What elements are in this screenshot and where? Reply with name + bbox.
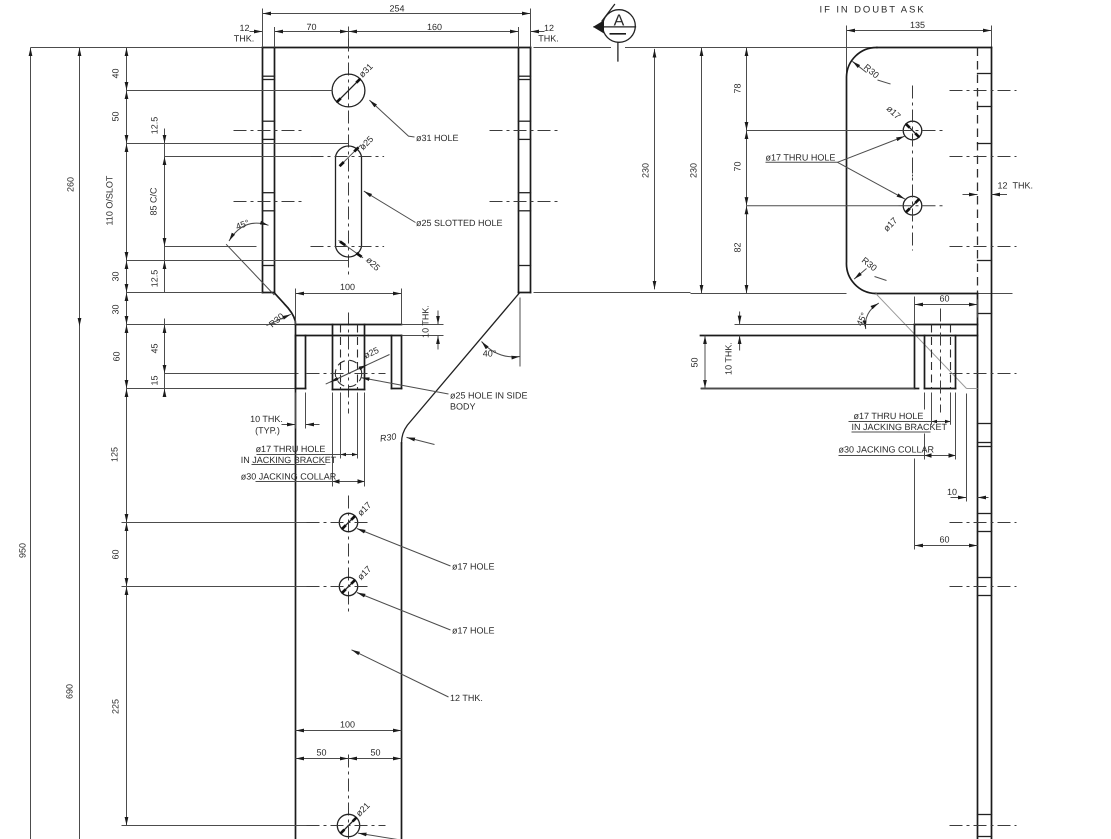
side plate face outline with R30 corners bbox=[846, 47, 876, 293]
top edge extension across views bbox=[534, 47, 612, 49]
svg-text:40°: 40° bbox=[483, 349, 497, 359]
slot outer top extension bbox=[127, 143, 349, 145]
bracket left edge and bottom bbox=[914, 325, 916, 389]
dim 50 right bbox=[704, 336, 706, 389]
45 deg construction line bbox=[226, 244, 274, 295]
svg-text:82: 82 bbox=[733, 242, 743, 252]
leader o17 HOLE upper bbox=[357, 529, 451, 567]
svg-text:70: 70 bbox=[733, 161, 743, 171]
svg-text:60: 60 bbox=[939, 535, 949, 545]
collar extension lines below bbox=[332, 393, 334, 487]
svg-text:THK.: THK. bbox=[234, 34, 255, 44]
svg-text:10 THK.: 10 THK. bbox=[421, 305, 431, 338]
slot outer bottom extension bbox=[127, 260, 349, 262]
bracket right leg bbox=[391, 336, 393, 389]
dim o17 thru hole (right) bbox=[849, 421, 951, 423]
svg-text:60: 60 bbox=[112, 351, 122, 361]
R30 label top bbox=[852, 61, 866, 72]
leader o25 HOLE IN SIDE BODY bbox=[361, 378, 449, 394]
svg-text:60: 60 bbox=[939, 294, 949, 304]
dim 10 foot bbox=[951, 497, 967, 499]
dim 60 lower right bbox=[915, 545, 978, 547]
main plate top edge (front view) bbox=[263, 47, 531, 49]
svg-text:ø25 HOLE IN SIDE: ø25 HOLE IN SIDE bbox=[450, 390, 528, 400]
dim 10 THK TYP legs bbox=[282, 424, 296, 426]
dim 70 and 160 line bbox=[275, 31, 349, 33]
svg-text:IF IN DOUBT ASK: IF IN DOUBT ASK bbox=[820, 5, 926, 16]
dim 100 lower bbox=[296, 730, 402, 732]
svg-text:ø25 SLOTTED HOLE: ø25 SLOTTED HOLE bbox=[416, 218, 503, 228]
dim line 260 / 690 bbox=[79, 48, 81, 327]
dim o30 jacking collar (front) bbox=[256, 481, 365, 483]
main centre line (vertical) bbox=[348, 27, 350, 48]
svg-text:135: 135 bbox=[910, 20, 925, 30]
svg-text:12: 12 bbox=[239, 23, 249, 33]
centre line of side-plate hole row 2 through both bars bbox=[234, 201, 303, 203]
svg-text:ø17 THRU HOLE: ø17 THRU HOLE bbox=[766, 153, 836, 163]
hole 25 in side body (hidden) bbox=[335, 360, 361, 386]
hole 17 #2 bbox=[339, 577, 357, 595]
svg-text:100: 100 bbox=[340, 282, 355, 292]
o25 dim at slot top bbox=[340, 145, 361, 166]
svg-text:12.5: 12.5 bbox=[150, 117, 160, 135]
chain column 12.5/85/12.5 and 45/15 bbox=[164, 129, 166, 293]
hidden ticks on left bar: R30 corner + side-plate hole edges bbox=[263, 75, 275, 77]
svg-text:225: 225 bbox=[111, 699, 121, 714]
svg-text:30: 30 bbox=[111, 271, 121, 281]
extension lines to chain columns bbox=[127, 90, 234, 92]
R30 label bottom bbox=[854, 269, 866, 280]
dim 100 over bracket bbox=[296, 293, 402, 295]
svg-text:IN JACKING BRACKET: IN JACKING BRACKET bbox=[241, 455, 337, 465]
svg-text:40: 40 bbox=[111, 68, 121, 78]
bracket flange bbox=[296, 324, 402, 326]
long plate left edge bbox=[295, 325, 297, 839]
45 deg arc bbox=[229, 223, 269, 241]
svg-text:254: 254 bbox=[389, 4, 404, 14]
svg-text:260: 260 bbox=[66, 177, 76, 192]
dim 254 bbox=[263, 13, 531, 15]
svg-text:110 O/SLOT: 110 O/SLOT bbox=[105, 175, 115, 225]
svg-text:12: 12 bbox=[998, 181, 1008, 191]
collar bore hidden lines bbox=[340, 325, 342, 390]
45 deg chamfer line (thin) bbox=[876, 294, 967, 389]
extension line from top edge to left dimension column bbox=[31, 47, 263, 49]
svg-text:THK.: THK. bbox=[1013, 181, 1034, 191]
section arrow A bbox=[603, 10, 636, 43]
leader o25 SLOTTED HOLE bbox=[364, 191, 416, 222]
svg-text:50: 50 bbox=[111, 111, 121, 121]
o25 dim slash bbox=[326, 355, 390, 385]
bracket left leg bbox=[295, 336, 297, 389]
dim 12 THK right bbox=[531, 31, 545, 33]
svg-text:A: A bbox=[614, 13, 625, 30]
side plate left, edge view (12 thk bar) bbox=[262, 48, 264, 293]
svg-text:30: 30 bbox=[111, 304, 121, 314]
svg-text:IN JACKING BRACKET: IN JACKING BRACKET bbox=[852, 422, 948, 432]
svg-text:125: 125 bbox=[110, 447, 120, 462]
40 deg chamfer right + R30 fillet to long plate bbox=[401, 293, 519, 443]
slot bottom centre line bbox=[165, 246, 257, 248]
hole 21 bbox=[337, 814, 359, 836]
svg-text:12 THK.: 12 THK. bbox=[450, 693, 483, 703]
dim 10 THK flange bbox=[437, 311, 439, 325]
jacking collar outer bbox=[332, 325, 334, 390]
svg-text:100: 100 bbox=[340, 719, 355, 729]
svg-text:ø31 HOLE: ø31 HOLE bbox=[416, 133, 459, 143]
flange edge view bbox=[735, 324, 915, 326]
svg-text:230: 230 bbox=[641, 163, 651, 178]
chain 78/70/82 bbox=[746, 48, 748, 131]
svg-text:60: 60 bbox=[111, 549, 121, 559]
svg-text:950: 950 bbox=[18, 543, 28, 558]
svg-text:50: 50 bbox=[690, 357, 700, 367]
45 deg angle dim right bbox=[865, 303, 878, 329]
svg-text:THK.: THK. bbox=[538, 34, 559, 44]
long plate right edge bbox=[401, 443, 403, 839]
dim 135 bbox=[847, 30, 992, 32]
leader 12 THK plate bbox=[352, 650, 449, 697]
o25 dim at slot bottom bbox=[339, 240, 363, 257]
ticks on plate edge: slot bbox=[978, 143, 992, 145]
dim 12 THK left bbox=[250, 31, 263, 33]
dim o17 thru hole (front) bbox=[257, 454, 358, 456]
hole 17 #1 bbox=[339, 513, 357, 531]
ticks on plate edge: lower holes bbox=[978, 513, 992, 515]
dim 50 50 bbox=[296, 758, 349, 760]
svg-text:10 THK.: 10 THK. bbox=[724, 342, 734, 375]
hole 25 centre line bbox=[307, 373, 386, 375]
45 deg chamfer left + R30 fillet to long plate bbox=[275, 294, 295, 325]
svg-text:10 THK.: 10 THK. bbox=[250, 414, 283, 424]
svg-text:ø30 JACKING COLLAR: ø30 JACKING COLLAR bbox=[839, 445, 935, 455]
40 deg angle dim bbox=[519, 298, 521, 367]
svg-text:50: 50 bbox=[370, 747, 380, 757]
collar edge view bbox=[924, 336, 926, 389]
dim 230 (right view) bbox=[701, 48, 703, 294]
dim line 950 bbox=[30, 48, 32, 839]
centre dash-dots across plate edge bbox=[950, 90, 1017, 92]
main plate edge view bbox=[977, 48, 979, 294]
extension to right view bottom bbox=[691, 293, 847, 295]
svg-text:690: 690 bbox=[65, 684, 75, 699]
hole 17 bottom (side plate) bbox=[903, 196, 922, 215]
ticks on plate edge: hole 31 bbox=[978, 73, 992, 75]
dim 60 bracket top bbox=[915, 304, 978, 306]
svg-text:ø17 THRU HOLE: ø17 THRU HOLE bbox=[256, 444, 326, 454]
dim 230 (left view height) bbox=[654, 49, 656, 290]
leader o17 HOLE lower bbox=[357, 593, 451, 631]
svg-text:ø17 HOLE: ø17 HOLE bbox=[452, 562, 495, 572]
hole 31 dia bbox=[332, 74, 365, 107]
hole 17 top (side plate) bbox=[903, 121, 922, 140]
dim o30 jacking collar (right) bbox=[839, 455, 956, 457]
svg-text:BODY: BODY bbox=[450, 401, 476, 411]
side plate right, edge view (12 thk bar) bbox=[518, 48, 520, 293]
svg-text:15: 15 bbox=[150, 375, 160, 385]
svg-text:10: 10 bbox=[947, 487, 957, 497]
svg-text:230: 230 bbox=[689, 163, 699, 178]
collar extension lines below (right) bbox=[924, 393, 926, 410]
hole 31 centre line bbox=[127, 90, 333, 92]
dim 12 THK plate bbox=[963, 194, 978, 196]
svg-text:ø17 THRU HOLE: ø17 THRU HOLE bbox=[854, 411, 924, 421]
svg-text:78: 78 bbox=[733, 83, 743, 93]
svg-text:ø30 JACKING COLLAR: ø30 JACKING COLLAR bbox=[241, 472, 337, 482]
svg-text:(TYP.): (TYP.) bbox=[255, 426, 280, 436]
svg-text:12.5: 12.5 bbox=[150, 270, 160, 288]
svg-text:45: 45 bbox=[150, 343, 160, 353]
dim 10 THK flange right bbox=[739, 312, 741, 325]
svg-text:70: 70 bbox=[306, 22, 316, 32]
slot top centre line bbox=[165, 156, 311, 158]
svg-text:ø17 HOLE: ø17 HOLE bbox=[452, 626, 495, 636]
svg-text:50: 50 bbox=[316, 747, 326, 757]
chain column ticks 40/50/110/30/30/60/125/60/225 bbox=[126, 48, 128, 91]
leader o31 HOLE bbox=[369, 100, 414, 137]
ticks on plate edge: chamfer transitions bbox=[978, 313, 992, 315]
svg-text:85 C/C: 85 C/C bbox=[149, 187, 159, 216]
slotted hole 25 bbox=[336, 146, 362, 257]
hidden ticks on right bar bbox=[519, 75, 531, 77]
centre line of side-plate hole row 1 through both bars bbox=[234, 130, 303, 132]
svg-text:160: 160 bbox=[427, 22, 442, 32]
svg-text:12: 12 bbox=[544, 23, 554, 33]
